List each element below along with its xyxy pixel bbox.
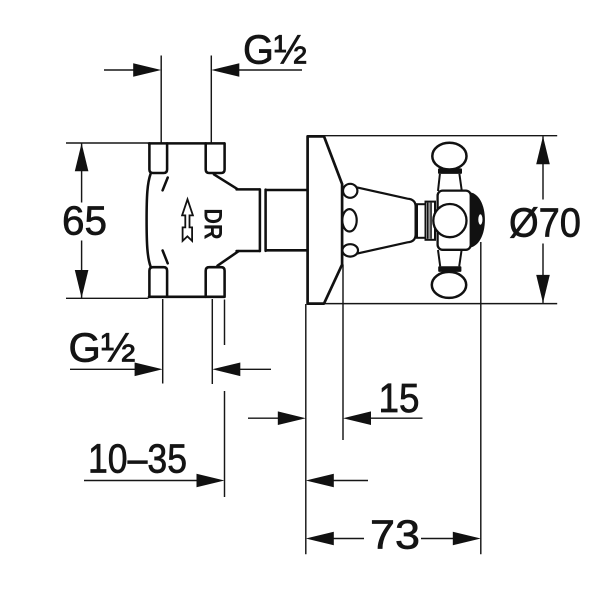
extension line 15 right: [342, 265, 344, 441]
cap highlight: [478, 214, 482, 224]
svg-text:G½: G½: [69, 325, 136, 371]
arrowhead dia70 up: [536, 136, 550, 164]
arrowhead 10-35 left: [197, 474, 225, 488]
extension line dia70 top: [308, 135, 557, 137]
arrowhead G1/2 bottom right: [212, 363, 240, 377]
svg-text:65: 65: [62, 198, 107, 244]
arrowhead 73 left: [306, 532, 334, 546]
dimension line 15 right segment: [370, 417, 423, 419]
arrowhead dia70 down: [536, 275, 550, 303]
stem top line: [237, 188, 260, 191]
pipe bottom line: [266, 249, 306, 252]
knurled ring inner line 2: [430, 203, 432, 239]
dimension line G1/2 top right segment: [237, 69, 302, 71]
extension line 10-35 left lower: [224, 391, 226, 497]
svg-text:DR: DR: [199, 209, 227, 240]
dimension line dia70 lower segment: [542, 244, 544, 303]
bottom black band: [438, 266, 461, 272]
valve nut top-right: [206, 143, 225, 173]
valve cast tick top: [163, 178, 168, 191]
cone flange ellipse bottom: [342, 244, 358, 256]
cone flange ellipse middle: [342, 209, 356, 231]
bonnet neck: [417, 204, 426, 238]
extension line wall / 73 left: [305, 304, 307, 554]
arrowhead 15 left: [278, 411, 306, 425]
valve nut bottom-left: [149, 267, 167, 297]
svg-text:Ø70: Ø70: [509, 200, 581, 246]
top ball: [432, 143, 466, 170]
top neck right side: [459, 174, 461, 191]
extension line G1/2 bottom left: [162, 299, 164, 384]
arrowhead G1/2 top right: [211, 63, 239, 77]
extension line 65 bottom: [66, 297, 149, 299]
stem bottom line: [237, 250, 260, 253]
extension line 10-35 left upper: [224, 300, 226, 346]
valve cast tick bottom: [163, 251, 168, 264]
bottom neck right side: [459, 250, 461, 266]
valve bottom edge: [149, 296, 224, 299]
knurled ring: [426, 202, 436, 240]
flow arrow inside valve: [182, 199, 193, 241]
extension line G1/2 top left: [160, 56, 162, 143]
pipe top line: [266, 189, 306, 192]
dimension line 10-35 right segment: [333, 480, 368, 482]
arrowhead G1/2 top left: [133, 63, 161, 77]
dimension line 15 left segment: [248, 417, 280, 419]
valve left edge: [147, 174, 151, 267]
stem groove line 1: [259, 189, 262, 251]
valve top edge: [149, 142, 224, 145]
arrowhead 73 right: [453, 532, 481, 546]
cone outline: [352, 186, 416, 254]
valve right slant top: [214, 174, 237, 188]
valve nut bottom-right: [206, 267, 225, 297]
svg-text:73: 73: [370, 512, 420, 558]
arrowhead 65 down: [75, 270, 89, 298]
dimension line 10-35 left segment: [84, 480, 198, 482]
dimension line 73 left segment: [332, 538, 364, 540]
cone flange ellipse top: [343, 184, 357, 198]
handle body: [438, 191, 471, 250]
dimension line 73 right segment: [421, 538, 454, 540]
extension line G1/2 top right: [210, 56, 212, 143]
arrowhead 15 right: [343, 411, 371, 425]
arrowhead 65 up: [75, 143, 89, 171]
dimension line 65 lower segment: [81, 241, 83, 299]
bottom ball: [432, 272, 466, 298]
top black band: [438, 168, 462, 174]
valve right slant bottom: [218, 251, 239, 266]
dimension line G1/2 bottom left segment: [70, 368, 136, 370]
svg-text:10–35: 10–35: [88, 436, 187, 482]
dimension line dia70 upper segment: [542, 136, 544, 199]
dimension line G1/2 bottom right segment: [239, 368, 271, 370]
extension line 65 top: [66, 142, 149, 144]
knurled ring grey band: [428, 203, 431, 239]
arrowhead G1/2 bottom left: [135, 363, 163, 377]
svg-text:G½: G½: [243, 26, 307, 72]
stem groove line 2: [264, 190, 267, 251]
dimension line G1/2 top left segment: [104, 69, 136, 71]
extension line G1/2 bottom right: [211, 299, 213, 384]
arrowhead 10-35 right: [306, 474, 334, 488]
extension line 73 right: [480, 242, 482, 554]
top neck left side: [438, 174, 440, 191]
valve nut top-left: [149, 143, 167, 173]
knurled ring inner line: [427, 203, 429, 239]
extension line dia70 bottom: [308, 303, 557, 305]
bottom neck left side: [438, 250, 440, 266]
dimension line 65 upper segment: [81, 143, 83, 203]
cone body fill: [352, 186, 416, 254]
handle front cap (black): [470, 192, 485, 248]
svg-text:15: 15: [379, 375, 420, 421]
handle center circle: [433, 204, 466, 237]
